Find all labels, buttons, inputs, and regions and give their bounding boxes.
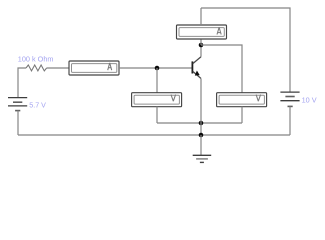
svg-text:10 V: 10 V xyxy=(302,95,317,104)
wire: battery B1 bottom to main bus xyxy=(17,111,19,135)
collector diagonal xyxy=(193,57,201,64)
wire: battery B2 bottom to main bus xyxy=(289,106,291,135)
voltmeter V2 (collector-emitter) xyxy=(217,93,267,107)
node: base junction dot xyxy=(155,66,160,71)
voltmeter V1 (base-emitter) xyxy=(132,93,182,107)
wire: main ground bus xyxy=(18,134,290,136)
wire: collector node to voltmeter V2 top xyxy=(201,45,242,93)
svg-text:5.7 V: 5.7 V xyxy=(29,102,46,110)
wire: ammeter A2 top to top rail xyxy=(200,8,202,25)
wire: voltmeter bus xyxy=(157,122,242,124)
svg-text:100 k Ohm: 100 k Ohm xyxy=(18,54,54,63)
wire: base node down to voltmeter V1 top xyxy=(156,68,158,93)
battery B2 (10 V) xyxy=(280,92,299,106)
ammeter A2 (collector ammeter) xyxy=(177,25,227,39)
transistor Q1 (NPN) xyxy=(192,57,201,79)
wire: voltmeter V2 bottom to voltmeter bus xyxy=(241,107,243,123)
emitter arrowhead xyxy=(195,71,200,76)
wire: resistor to base ammeter xyxy=(47,67,69,69)
emitter diagonal xyxy=(193,71,201,78)
node: collector junction dot xyxy=(199,43,204,48)
wire: voltmeter V1 bottom to voltmeter bus xyxy=(156,107,158,123)
ground symbol xyxy=(193,135,212,162)
wire: collector node up into ammeter A2 xyxy=(200,39,202,45)
wire: emitter lead down through bus junctions xyxy=(200,78,202,135)
battery B1 (5.7 V) xyxy=(8,98,27,111)
resistor R (100 k Ohm) zigzag xyxy=(26,65,47,71)
wire: left rail from base wire down to battery top xyxy=(18,68,26,98)
wire: collector lead up to collector node xyxy=(200,45,202,57)
base bar xyxy=(191,61,193,73)
node: emitter/voltmeter-bus junction dot xyxy=(199,121,204,126)
wire: top rail xyxy=(201,8,290,92)
ammeter A1 (base ammeter) xyxy=(69,61,119,75)
node: emitter/main-bus junction dot xyxy=(199,133,204,138)
wire: base ammeter to base node xyxy=(119,67,192,69)
